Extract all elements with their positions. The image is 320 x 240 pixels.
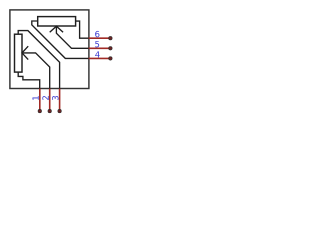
- potentiometer RV-left body: [15, 34, 23, 72]
- pin 6 number: [95, 31, 99, 37]
- pin 2 number: [42, 96, 48, 100]
- wire B: top pot left terminal to pin 4: [32, 21, 89, 58]
- pin 6 line: [89, 37, 111, 39]
- pin 1 number: [32, 96, 38, 100]
- wire E: left pot wiper to pin 2: [22, 53, 50, 89]
- pin 2 line: [49, 89, 51, 111]
- symbol body frame: [10, 10, 89, 89]
- pin 5 number: [95, 41, 99, 47]
- pin 5 line: [89, 47, 111, 49]
- pin 4 number: [95, 51, 99, 57]
- wire A: top pot right terminal to pin 6: [76, 21, 89, 38]
- wire F: left pot bottom terminal to pin 1: [18, 72, 40, 89]
- pin 3 end dot: [58, 109, 62, 113]
- arrowhead left wiper: [22, 46, 28, 59]
- pin 6 end dot: [109, 36, 113, 40]
- pin 1 line: [39, 89, 41, 111]
- pin 4 end dot: [109, 57, 113, 61]
- pin 5 end dot: [109, 47, 113, 51]
- wire D: left pot top terminal to pin 3: [18, 31, 59, 89]
- potentiometer RV-top body: [38, 17, 76, 26]
- arrowhead top wiper: [50, 26, 63, 32]
- background: [0, 0, 122, 122]
- pin 3 line: [59, 89, 61, 111]
- wire C: top pot wiper to pin 5: [56, 26, 88, 48]
- pin 4 line: [89, 57, 111, 59]
- pin 1 end dot: [38, 109, 42, 113]
- pin 3 number: [52, 96, 58, 100]
- pin 2 end dot: [48, 109, 52, 113]
